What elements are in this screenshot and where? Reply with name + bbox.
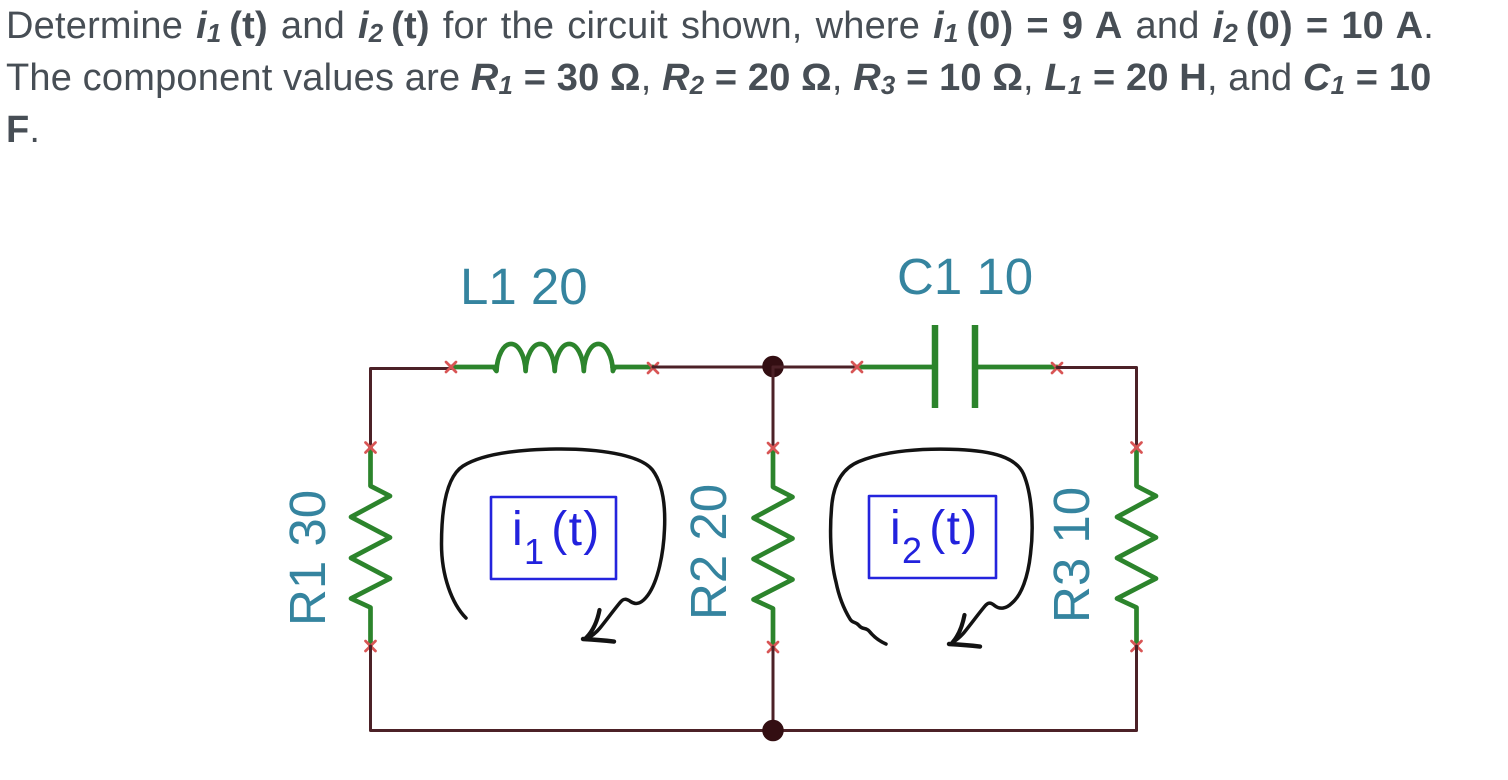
- pin mark R3 bottom: [1132, 641, 1142, 651]
- junction node top: [763, 357, 783, 377]
- mesh current loop i2 (hand-drawn arrow): [831, 449, 1033, 646]
- pin mark L1 right: [648, 363, 658, 373]
- label R2 20: [680, 484, 737, 620]
- svg-text:i2(t): i2(t): [890, 502, 979, 571]
- svg-text:R1 30: R1 30: [279, 490, 336, 626]
- wire C1 right to R3 top: [1057, 368, 1137, 450]
- inductor L1: [451, 344, 653, 371]
- label R1 30: [279, 490, 336, 626]
- pin mark R2 top: [768, 443, 778, 453]
- label R3 10: [1043, 487, 1100, 623]
- capacitor C1: [857, 325, 1057, 408]
- label C1 10: [897, 248, 1033, 305]
- pin mark R1 bottom: [366, 641, 376, 651]
- wire R2 bottom to bottom node: [772, 647, 775, 731]
- pin mark R3 top: [1132, 443, 1142, 453]
- label i1(t): [491, 497, 616, 579]
- resistor R2: [754, 449, 793, 648]
- wire top-left corner (R1 top to L1 left): [371, 369, 452, 450]
- pin mark C1 left: [852, 362, 862, 372]
- svg-text:R2 20: R2 20: [680, 484, 737, 620]
- wire top node to R2 top: [772, 367, 775, 449]
- label L1 20: [460, 258, 588, 315]
- svg-text:C1 10: C1 10: [897, 248, 1033, 305]
- resistor R1: [351, 448, 390, 647]
- pin mark R2 bottom: [768, 642, 778, 652]
- wire top node to C1 left: [773, 366, 857, 369]
- junction node bottom: [763, 721, 783, 741]
- wire bottom node to R3 bottom: [773, 646, 1137, 731]
- svg-text:R3 10: R3 10: [1043, 487, 1100, 623]
- pin mark C1 right: [1052, 363, 1062, 373]
- label i2(t): [869, 496, 996, 578]
- svg-text:L1 20: L1 20: [460, 258, 588, 315]
- pin mark R1 top: [366, 443, 376, 453]
- mesh current loop i1 (hand-drawn arrow): [442, 449, 665, 642]
- wire R1 bottom to bottom node: [371, 646, 774, 731]
- pin mark L1 left: [446, 362, 456, 372]
- wire L1 right to top node: [653, 366, 773, 369]
- svg-text:i1(t): i1(t): [512, 503, 601, 572]
- resistor R3: [1117, 448, 1156, 647]
